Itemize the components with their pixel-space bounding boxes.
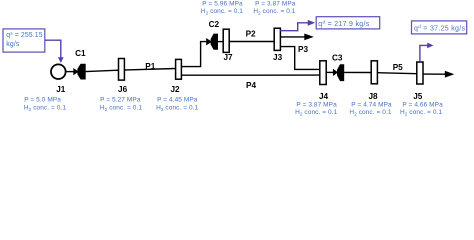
- svg-text:C3: C3: [332, 53, 343, 62]
- svg-text:C2: C2: [209, 20, 220, 29]
- svg-text:P = 3.87 MPa: P = 3.87 MPa: [296, 101, 337, 108]
- svg-text:P = 4.74 MPa: P = 4.74 MPa: [351, 101, 392, 108]
- svg-text:J4: J4: [319, 92, 329, 101]
- svg-text:P2: P2: [246, 30, 256, 39]
- svg-text:P = 5.96 MPa: P = 5.96 MPa: [202, 1, 243, 8]
- svg-text:J3: J3: [273, 53, 283, 62]
- svg-text:qs = 255.15: qs = 255.15: [6, 31, 42, 39]
- svg-text:J1: J1: [56, 85, 66, 94]
- svg-text:P5: P5: [393, 63, 403, 72]
- svg-text:C1: C1: [75, 49, 86, 58]
- svg-text:P3: P3: [298, 45, 308, 54]
- svg-text:J2: J2: [170, 85, 180, 94]
- svg-text:qd = 37.25 kg/s: qd = 37.25 kg/s: [414, 24, 465, 32]
- svg-text:J8: J8: [368, 92, 378, 101]
- svg-text:P = 5.0 MPa: P = 5.0 MPa: [24, 96, 61, 103]
- svg-text:P = 4.66 MPa: P = 4.66 MPa: [402, 101, 443, 108]
- svg-text:kg/s: kg/s: [6, 41, 20, 48]
- svg-text:qd = 217.9 kg/s: qd = 217.9 kg/s: [318, 20, 369, 28]
- svg-text:P1: P1: [145, 62, 155, 71]
- svg-text:P4: P4: [246, 81, 256, 90]
- svg-text:J5: J5: [413, 92, 423, 101]
- svg-text:J7: J7: [223, 53, 233, 62]
- svg-text:P = 3.87 MPa: P = 3.87 MPa: [255, 1, 296, 8]
- svg-text:P = 5.27 MPa: P = 5.27 MPa: [100, 96, 141, 103]
- svg-text:P = 4.45 MPa: P = 4.45 MPa: [157, 96, 198, 103]
- svg-text:J6: J6: [118, 85, 128, 94]
